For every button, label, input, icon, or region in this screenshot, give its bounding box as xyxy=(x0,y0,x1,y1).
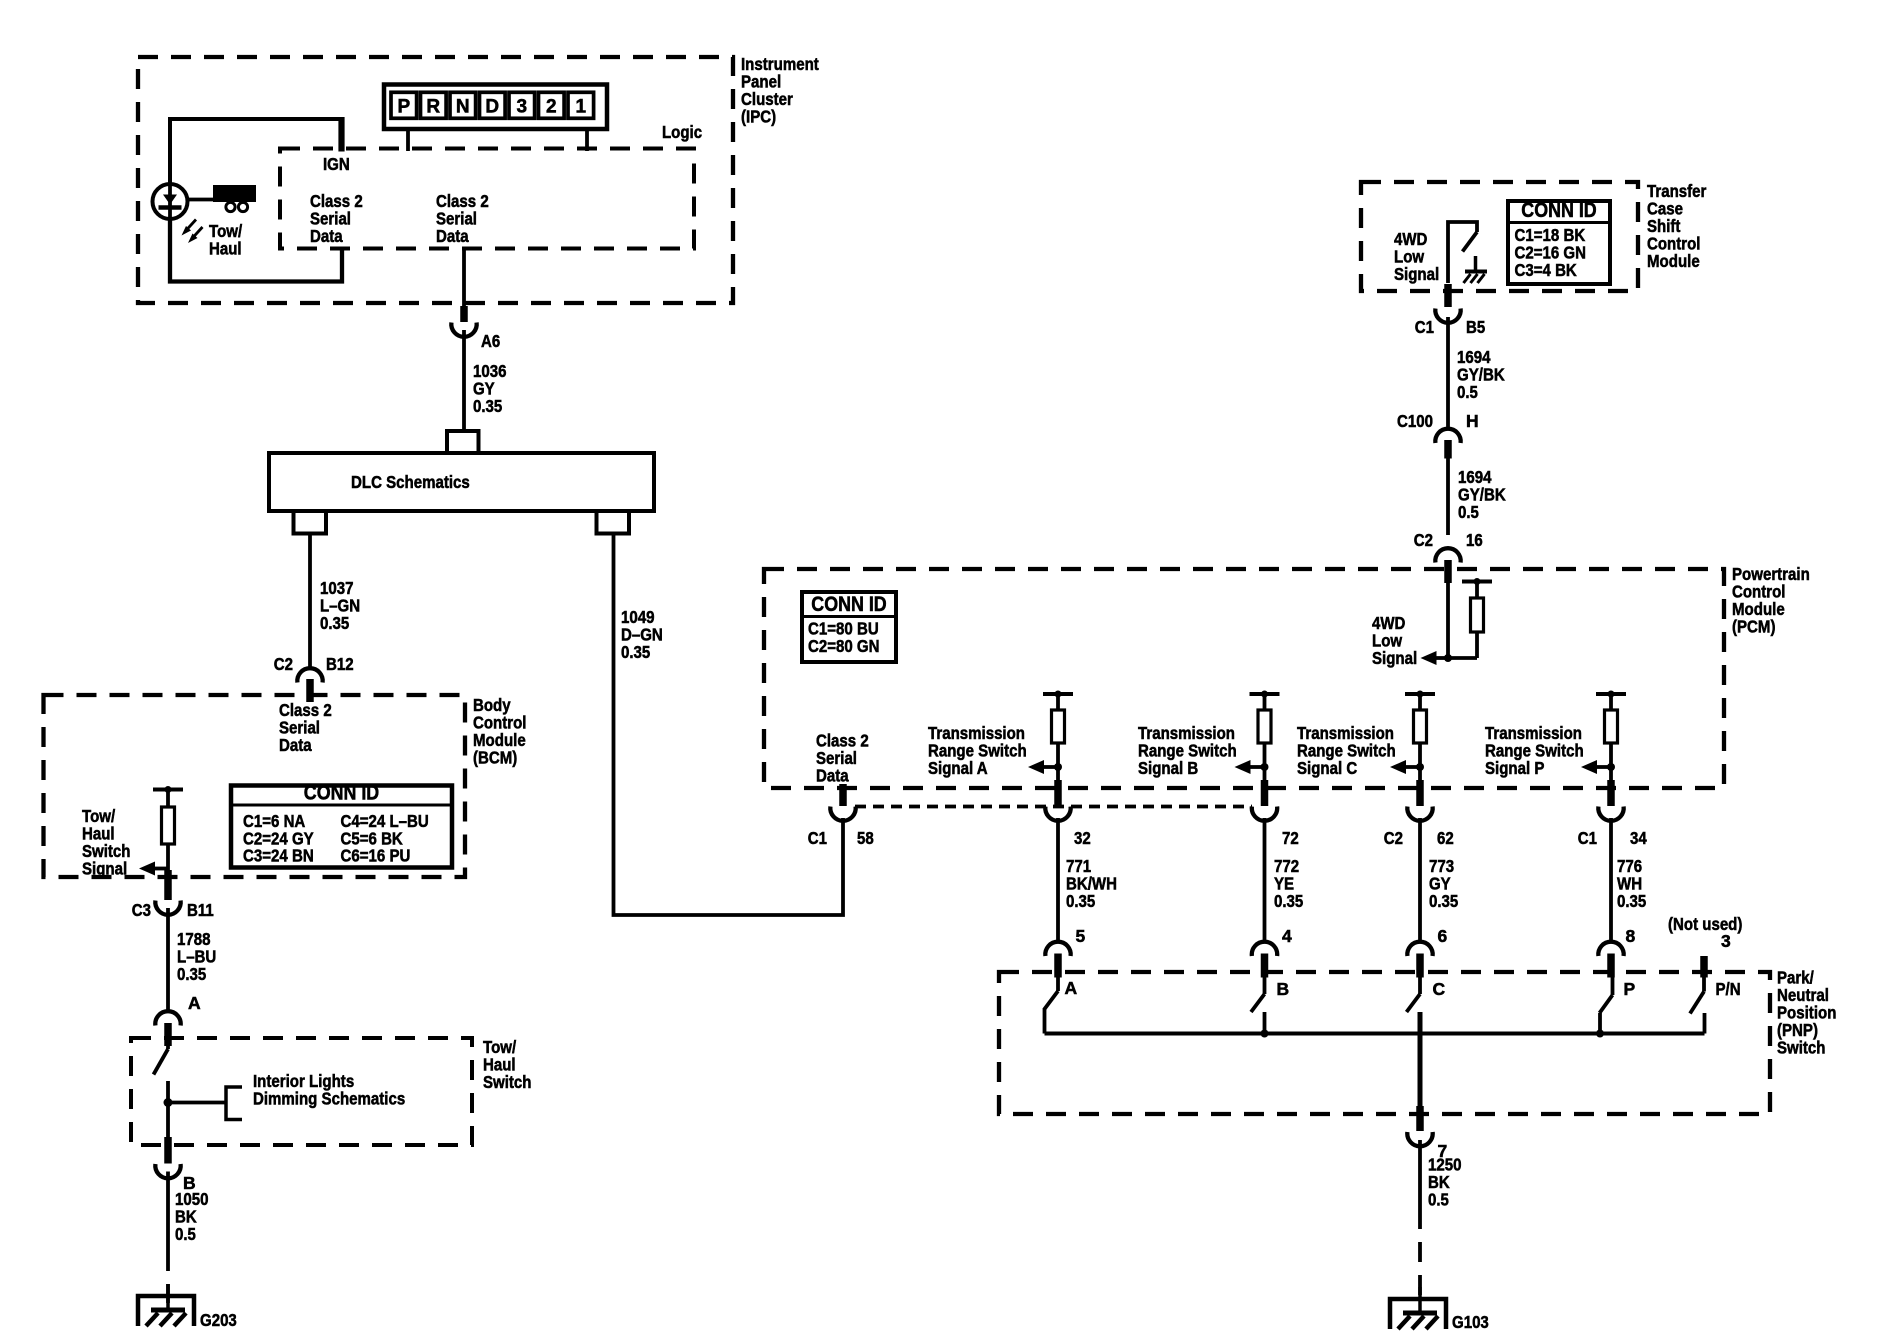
svg-text:Signal C: Signal C xyxy=(1297,758,1358,778)
svg-text:C6=16 PU: C6=16 PU xyxy=(341,846,411,866)
svg-text:34: 34 xyxy=(1630,828,1647,848)
svg-text:B5: B5 xyxy=(1466,317,1485,337)
svg-text:A: A xyxy=(188,993,201,1013)
wire B to ground G203 xyxy=(166,1172,170,1304)
svg-text:0.35: 0.35 xyxy=(1274,891,1304,911)
wire label 1049 D-GN 0.35 xyxy=(621,607,663,662)
switch P/N xyxy=(1690,978,1741,1034)
wire below switch blade with junction xyxy=(164,1081,173,1138)
svg-text:6: 6 xyxy=(1438,926,1448,946)
svg-text:P: P xyxy=(1624,979,1636,999)
svg-text:C3=24 BN: C3=24 BN xyxy=(243,846,314,866)
svg-text:IGN: IGN xyxy=(323,154,350,174)
svg-text:A: A xyxy=(1065,978,1078,998)
svg-text:0.35: 0.35 xyxy=(1066,891,1096,911)
svg-text:Signal P: Signal P xyxy=(1485,758,1545,778)
PCM CONN ID table xyxy=(802,592,896,662)
svg-text:0.35: 0.35 xyxy=(1429,891,1459,911)
class 2 serial data dashed link wire xyxy=(855,805,1252,809)
connector C100 H xyxy=(1397,411,1479,459)
svg-text:C2: C2 xyxy=(274,654,293,674)
4WD Low Signal label (transfer case) xyxy=(1394,229,1439,284)
wire label 773 GY 0.35 xyxy=(1429,856,1459,911)
svg-text:Haul: Haul xyxy=(209,239,242,259)
tow/haul switch blade xyxy=(154,1046,169,1075)
svg-text:58: 58 xyxy=(857,828,874,848)
wire DLC to BCM xyxy=(308,534,312,703)
connector C2 16 xyxy=(1414,530,1483,583)
PNP common bus wire xyxy=(1045,1032,1705,1036)
wire C100 to C2 xyxy=(1446,459,1450,536)
svg-text:0.35: 0.35 xyxy=(1617,891,1647,911)
wire 776 WH xyxy=(1609,818,1613,943)
svg-text:Signal B: Signal B xyxy=(1138,758,1198,778)
BCM Class 2 Serial Data label xyxy=(279,700,332,755)
Tow/Haul Switch Signal label xyxy=(82,806,131,879)
wire A6 to DLC schematics xyxy=(462,330,466,433)
svg-text:C1: C1 xyxy=(808,828,827,848)
transfer case 4WD low switch wire xyxy=(1448,222,1477,283)
wire label 1694 GY/BK 0.5 lower xyxy=(1458,467,1506,522)
svg-text:0.5: 0.5 xyxy=(1458,502,1479,522)
wire B5 to C100 xyxy=(1446,317,1450,430)
svg-text:R: R xyxy=(426,97,440,118)
svg-text:0.5: 0.5 xyxy=(175,1224,196,1244)
connector C3 B11 xyxy=(132,870,214,920)
wire LED bottom loop to logic box xyxy=(170,219,342,282)
PCM transmission range switch signal P resistor xyxy=(1596,691,1626,789)
svg-text:C1: C1 xyxy=(1415,317,1434,337)
svg-text:Data: Data xyxy=(436,226,469,246)
svg-text:CONN ID: CONN ID xyxy=(304,782,379,805)
switch P xyxy=(1596,978,1636,1038)
svg-text:CONN ID: CONN ID xyxy=(1521,199,1596,222)
wire label 1050 BK 0.5 xyxy=(175,1189,209,1244)
BCM tow/haul signal arrow xyxy=(139,862,155,876)
svg-text:32: 32 xyxy=(1074,828,1091,848)
signal A arrow xyxy=(1028,760,1044,774)
tow/haul switch dashed box xyxy=(131,1038,472,1145)
wire C2 16 into PCM 4WD junction xyxy=(1444,583,1477,662)
PCM 4WD low signal arrow xyxy=(1421,651,1437,665)
svg-text:1: 1 xyxy=(576,97,587,118)
svg-text:C: C xyxy=(1433,979,1446,999)
transfer case switch blade xyxy=(1463,232,1478,252)
transfer case label xyxy=(1647,181,1707,271)
svg-text:C2=80 GN: C2=80 GN xyxy=(808,636,880,656)
PCM Class 2 Serial Data label xyxy=(816,731,869,786)
svg-text:2: 2 xyxy=(546,97,557,118)
wire 771 BK/WH xyxy=(1056,818,1060,943)
connector C2 62 xyxy=(1384,780,1454,848)
svg-text:3: 3 xyxy=(517,97,528,118)
signal C arrow xyxy=(1390,760,1406,774)
svg-text:(PCM): (PCM) xyxy=(1732,617,1776,637)
connector 4 xyxy=(1252,926,1292,978)
transfer case shift control module dashed box xyxy=(1361,182,1638,291)
svg-text:DLC Schematics: DLC Schematics xyxy=(351,472,470,492)
connector 8 xyxy=(1598,926,1635,978)
svg-text:Data: Data xyxy=(279,735,312,755)
svg-text:Signal: Signal xyxy=(1372,648,1417,668)
svg-text:N: N xyxy=(456,97,470,118)
svg-text:B12: B12 xyxy=(326,654,354,674)
wire label 772 YE 0.35 xyxy=(1274,856,1304,911)
svg-text:B: B xyxy=(1277,979,1290,999)
svg-text:0.35: 0.35 xyxy=(621,642,651,662)
Transmission Range Switch Signal P label xyxy=(1485,723,1584,778)
svg-text:C3: C3 xyxy=(132,900,151,920)
svg-text:G103: G103 xyxy=(1452,1312,1489,1332)
wire label 771 BK/WH 0.35 xyxy=(1066,856,1117,911)
Transmission Range Switch Signal C label xyxy=(1297,723,1396,778)
wire LED to trailer icon xyxy=(188,198,213,202)
wire label 1250 BK 0.5 xyxy=(1428,1155,1462,1210)
svg-text:Data: Data xyxy=(310,226,343,246)
connector C2 B12 xyxy=(274,654,354,683)
DLC bottom-left notch xyxy=(294,511,327,534)
svg-text:A6: A6 xyxy=(481,331,500,351)
4WD Low Signal label (PCM) xyxy=(1372,613,1417,668)
svg-text:0.5: 0.5 xyxy=(1428,1190,1449,1210)
svg-text:4: 4 xyxy=(1282,926,1292,946)
svg-text:Logic: Logic xyxy=(662,122,702,142)
svg-text:Switch: Switch xyxy=(483,1072,532,1092)
svg-text:16: 16 xyxy=(1466,530,1483,550)
wire IGN loop from indicator to logic box xyxy=(170,117,342,184)
svg-text:G203: G203 xyxy=(200,1310,237,1330)
svg-text:C2: C2 xyxy=(1414,530,1433,550)
trailer icon xyxy=(213,185,256,212)
indicator LED Tow/Haul lamp xyxy=(153,184,188,219)
Interior Lights Dimming Schematics label xyxy=(253,1071,405,1109)
wire label 776 WH 0.35 xyxy=(1617,856,1647,911)
svg-text:C1: C1 xyxy=(1578,828,1597,848)
PCM 4WD pull-up resistor xyxy=(1462,578,1492,658)
svg-text:8: 8 xyxy=(1626,926,1636,946)
LED emission arrows xyxy=(182,220,203,244)
svg-text:P/N: P/N xyxy=(1716,979,1741,999)
powertrain control module PCM dashed box xyxy=(764,569,1724,788)
svg-text:P: P xyxy=(397,97,410,118)
PCM transmission range switch signal B resistor xyxy=(1250,691,1280,789)
DLC bottom-right notch xyxy=(597,511,630,534)
connector C1 B5 xyxy=(1415,284,1486,337)
wire 772 YE xyxy=(1263,818,1267,943)
svg-text:62: 62 xyxy=(1437,828,1454,848)
switch B xyxy=(1251,978,1289,1038)
svg-text:3: 3 xyxy=(1721,931,1731,951)
svg-text:0.5: 0.5 xyxy=(1457,382,1478,402)
DLC top notch xyxy=(447,431,479,453)
svg-text:72: 72 xyxy=(1282,828,1299,848)
wire label 1694 GY/BK 0.5 upper xyxy=(1457,347,1505,402)
svg-text:Signal: Signal xyxy=(82,859,127,879)
wire B11 to tow/haul switch xyxy=(166,908,170,1012)
svg-text:C100: C100 xyxy=(1397,411,1433,431)
connector 5 xyxy=(1045,926,1085,978)
connector 7 xyxy=(1407,1132,1447,1161)
svg-text:C2: C2 xyxy=(1384,828,1403,848)
PNP switch label xyxy=(1777,968,1836,1058)
svg-text:CONN ID: CONN ID xyxy=(811,593,886,616)
svg-text:C3=4 BK: C3=4 BK xyxy=(1515,260,1578,280)
wire class 2 serial data down from logic box xyxy=(462,250,466,322)
Class 2 Serial Data label left xyxy=(310,191,363,246)
connector 6 xyxy=(1407,926,1447,978)
svg-text:Module: Module xyxy=(1647,251,1700,271)
svg-text:B11: B11 xyxy=(187,900,214,920)
svg-text:(BCM): (BCM) xyxy=(473,748,517,768)
svg-text:0.35: 0.35 xyxy=(320,613,350,633)
transfer case CONN ID table xyxy=(1508,199,1610,284)
PCM transmission range switch signal A resistor xyxy=(1043,691,1073,789)
connector C1 34 xyxy=(1578,780,1647,848)
wire junction to interior lights bracket xyxy=(168,1087,242,1120)
switch C xyxy=(1407,978,1446,1034)
wire 7 to ground G103 xyxy=(1418,1140,1422,1301)
PRND321 shift indicator box xyxy=(384,85,607,130)
transfer case internal ground xyxy=(1464,256,1488,283)
svg-text:0.35: 0.35 xyxy=(177,964,207,984)
connector C1 58 xyxy=(808,807,874,849)
svg-text:(IPC): (IPC) xyxy=(741,107,776,127)
not used pin 3 stub xyxy=(1668,914,1742,978)
PCM label xyxy=(1732,564,1810,637)
wire 773 GY xyxy=(1418,818,1422,943)
connector 72 xyxy=(1252,780,1299,848)
Logic dashed box xyxy=(280,149,694,249)
svg-text:Data: Data xyxy=(816,766,849,786)
wire PRND left leg xyxy=(406,129,410,151)
IPC label xyxy=(741,54,819,127)
svg-text:Signal: Signal xyxy=(1394,264,1439,284)
Transmission Range Switch Signal B label xyxy=(1138,723,1237,778)
svg-text:H: H xyxy=(1466,411,1479,431)
svg-text:Switch: Switch xyxy=(1777,1038,1826,1058)
wire label 1788 L-BU 0.35 xyxy=(177,929,216,984)
ground G103 xyxy=(1390,1287,1489,1332)
svg-text:Signal A: Signal A xyxy=(928,758,988,778)
Tow/Haul Switch label xyxy=(483,1037,532,1092)
wire label 1036 GY 0.35 xyxy=(473,361,507,416)
svg-text:Dimming Schematics: Dimming Schematics xyxy=(253,1089,405,1109)
wire PRND right leg xyxy=(585,129,589,151)
body control module BCM dashed box xyxy=(44,695,466,877)
connector A tow/haul switch xyxy=(155,993,201,1046)
wire label 1037 L-GN 0.35 xyxy=(320,578,360,633)
BCM label xyxy=(473,695,527,768)
BCM tow/haul pull-up resistor xyxy=(153,786,183,877)
PNP output wire xyxy=(1418,1032,1423,1132)
instrument panel cluster IPC dashed box xyxy=(138,57,733,303)
PCM transmission range switch signal C resistor xyxy=(1405,691,1435,789)
connector A6 xyxy=(451,323,500,352)
Transmission Range Switch Signal A label xyxy=(928,723,1027,778)
connector B tow/haul switch xyxy=(155,1137,195,1193)
BCM CONN ID table xyxy=(231,782,452,868)
wire DLC to PCM class 2 xyxy=(614,534,844,916)
svg-text:0.35: 0.35 xyxy=(473,396,503,416)
connector 32 xyxy=(1045,780,1091,848)
svg-text:5: 5 xyxy=(1076,926,1086,946)
park/neutral position switch dashed box xyxy=(999,972,1770,1114)
Tow/Haul lamp label xyxy=(209,221,242,259)
ground G203 xyxy=(138,1284,237,1330)
signal P arrow xyxy=(1581,760,1597,774)
DLC Schematics box xyxy=(269,453,654,511)
signal B arrow xyxy=(1235,760,1251,774)
Class 2 Serial Data label right xyxy=(436,191,489,246)
switch A xyxy=(1045,978,1078,1034)
svg-text:D: D xyxy=(485,97,499,118)
svg-text:(Not used): (Not used) xyxy=(1668,914,1742,934)
